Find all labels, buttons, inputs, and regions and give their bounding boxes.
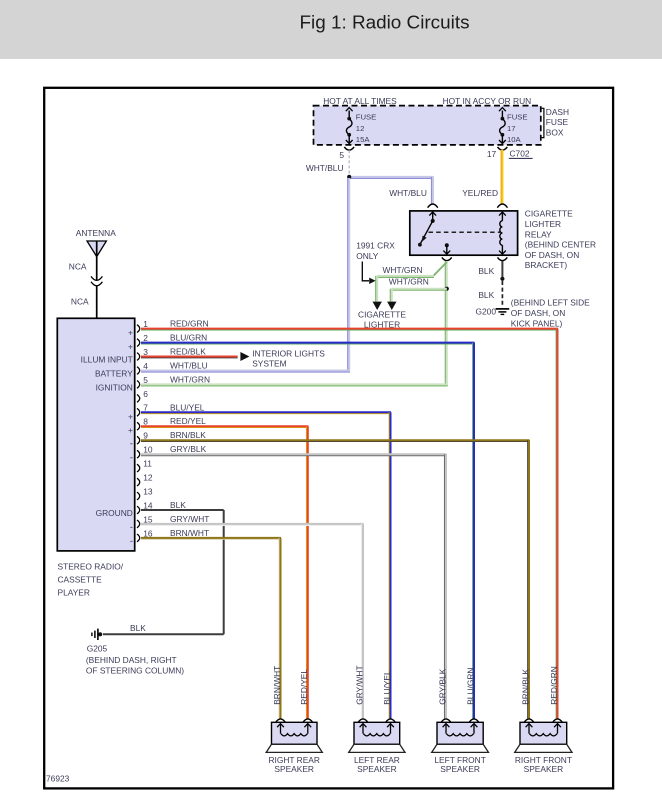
svg-text:RED/YEL: RED/YEL [170,416,206,426]
svg-text:OF STEERING COLUMN): OF STEERING COLUMN) [86,666,184,676]
svg-text:BLK: BLK [478,290,494,300]
svg-text:-: - [130,438,133,449]
svg-text:WHT/GRN: WHT/GRN [170,374,210,384]
svg-text:DASH: DASH [546,107,569,117]
svg-text:12: 12 [356,124,365,133]
svg-text:NCA: NCA [71,297,89,307]
svg-text:KICK PANEL): KICK PANEL) [511,319,563,329]
svg-text:BRN/BLK: BRN/BLK [170,430,206,440]
svg-text:ANTENNA: ANTENNA [76,228,116,238]
svg-text:LIGHTER: LIGHTER [525,219,561,229]
svg-text:HOT AT ALL TIMES: HOT AT ALL TIMES [323,96,397,106]
svg-text:OF DASH, ON: OF DASH, ON [511,308,565,318]
svg-text:+: + [128,411,133,421]
svg-text:17: 17 [507,124,516,133]
svg-text:10: 10 [143,445,153,455]
svg-text:PLAYER: PLAYER [58,588,90,598]
svg-text:8: 8 [143,417,148,427]
svg-text:Fig 1: Radio Circuits: Fig 1: Radio Circuits [299,13,469,34]
svg-text:10A: 10A [507,135,522,144]
svg-text:15: 15 [143,514,153,524]
svg-text:76923: 76923 [46,774,70,784]
svg-text:STEREO RADIO/: STEREO RADIO/ [58,562,124,572]
svg-text:6: 6 [143,389,148,399]
svg-text:IGNITION: IGNITION [96,383,133,393]
svg-text:16: 16 [143,528,153,538]
svg-text:RED/GRN: RED/GRN [170,319,209,329]
svg-text:WHT/BLU: WHT/BLU [389,188,427,198]
svg-text:NCA: NCA [69,261,87,271]
svg-text:BRN/WHT: BRN/WHT [272,666,282,705]
svg-text:3: 3 [143,347,148,357]
svg-text:WHT/GRN: WHT/GRN [383,265,423,275]
svg-text:WHT/GRN: WHT/GRN [389,277,429,287]
svg-text:CIGARETTE: CIGARETTE [525,209,573,219]
svg-text:+: + [128,425,133,435]
svg-text:(BEHIND LEFT SIDE: (BEHIND LEFT SIDE [511,297,590,307]
svg-text:SPEAKER: SPEAKER [524,764,564,774]
svg-text:RELAY: RELAY [525,229,552,239]
svg-text:BLU/GRN: BLU/GRN [170,333,207,343]
svg-text:WHT/BLU: WHT/BLU [170,361,208,371]
svg-text:SPEAKER: SPEAKER [274,764,314,774]
svg-text:CASSETTE: CASSETTE [58,575,103,585]
svg-text:BLK: BLK [130,623,146,633]
svg-text:SYSTEM: SYSTEM [252,359,286,369]
svg-text:BLU/YEL: BLU/YEL [170,402,205,412]
svg-text:ONLY: ONLY [356,251,379,261]
svg-text:BRACKET): BRACKET) [525,260,568,270]
svg-text:4: 4 [143,361,148,371]
svg-text:+: + [128,328,133,338]
svg-text:FUSE: FUSE [546,117,569,127]
svg-text:-: - [130,452,133,463]
svg-text:WHT/BLU: WHT/BLU [306,163,344,173]
svg-text:7: 7 [143,403,148,413]
svg-text:GRY/BLK: GRY/BLK [437,668,447,705]
svg-text:9: 9 [143,431,148,441]
svg-text:12: 12 [143,473,153,483]
svg-text:BOX: BOX [546,128,564,138]
svg-text:BLK: BLK [478,266,494,276]
svg-text:FUSE: FUSE [507,112,528,121]
svg-text:5: 5 [339,150,344,160]
svg-text:GROUND: GROUND [96,508,133,518]
svg-text:CIGARETTE: CIGARETTE [358,310,406,320]
svg-text:GRY/WHT: GRY/WHT [170,514,209,524]
svg-text:14: 14 [143,500,153,510]
svg-text:FUSE: FUSE [356,112,377,121]
svg-text:BATTERY: BATTERY [95,369,133,379]
svg-text:1991 CRX: 1991 CRX [356,241,395,251]
svg-text:BLU/GRN: BLU/GRN [465,668,475,705]
svg-text:C702: C702 [510,148,530,158]
svg-text:GRY/WHT: GRY/WHT [354,665,364,704]
svg-text:HOT IN ACCY OR RUN: HOT IN ACCY OR RUN [443,96,532,106]
svg-text:2: 2 [143,333,148,343]
svg-text:BLU/YEL: BLU/YEL [382,670,392,705]
svg-text:RED/GRN: RED/GRN [549,666,559,705]
svg-text:OF DASH, ON: OF DASH, ON [525,250,579,260]
svg-text:G200: G200 [476,307,497,317]
svg-text:(BEHIND CENTER: (BEHIND CENTER [525,240,596,250]
svg-text:5: 5 [143,375,148,385]
svg-text:INTERIOR LIGHTS: INTERIOR LIGHTS [252,348,325,358]
svg-text:SPEAKER: SPEAKER [440,764,480,774]
svg-text:SPEAKER: SPEAKER [357,764,397,774]
svg-text:17: 17 [487,149,497,159]
svg-text:GRY/BLK: GRY/BLK [170,444,207,454]
svg-text:BLK: BLK [170,500,186,510]
svg-text:BRN/BLK: BRN/BLK [520,669,530,705]
svg-text:-: - [130,536,133,547]
svg-text:ILLUM INPUT: ILLUM INPUT [81,355,133,365]
svg-text:RED/BLK: RED/BLK [170,347,206,357]
svg-text:1: 1 [143,319,148,329]
svg-text:15A: 15A [356,135,371,144]
svg-text:YEL/RED: YEL/RED [462,188,498,198]
svg-text:BRN/WHT: BRN/WHT [170,528,209,538]
svg-text:+: + [128,342,133,352]
svg-text:G205: G205 [87,643,108,653]
svg-text:-: - [130,522,133,533]
svg-text:(BEHIND DASH, RIGHT: (BEHIND DASH, RIGHT [86,655,177,665]
svg-text:11: 11 [143,459,152,469]
svg-text:13: 13 [143,486,153,496]
svg-text:RED/YEL: RED/YEL [299,669,309,705]
